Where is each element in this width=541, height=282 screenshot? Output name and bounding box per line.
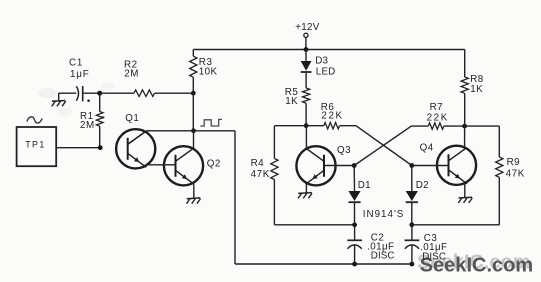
svg-text:DISC: DISC xyxy=(371,251,395,262)
svg-text:DISC: DISC xyxy=(422,251,446,262)
svg-text:10K: 10K xyxy=(199,66,218,77)
svg-text:R7: R7 xyxy=(430,102,444,113)
svg-text:D3: D3 xyxy=(315,56,328,67)
svg-text:R4: R4 xyxy=(251,158,265,169)
svg-text:D1: D1 xyxy=(358,180,371,191)
svg-text:1K: 1K xyxy=(285,96,298,107)
svg-text:1μF: 1μF xyxy=(70,69,89,80)
svg-text:22K: 22K xyxy=(321,111,343,122)
svg-text:Q3: Q3 xyxy=(337,145,351,156)
svg-text:C1: C1 xyxy=(69,58,83,69)
svg-text:1K: 1K xyxy=(470,84,483,95)
svg-text:47K: 47K xyxy=(506,168,525,179)
svg-text:Q2: Q2 xyxy=(207,159,221,170)
svg-text:22K: 22K xyxy=(427,113,449,124)
svg-text:Q1: Q1 xyxy=(125,113,139,124)
svg-text:47K: 47K xyxy=(251,169,270,180)
svg-text:Q4: Q4 xyxy=(420,142,434,153)
svg-text:2M: 2M xyxy=(80,120,95,131)
svg-text:R9: R9 xyxy=(507,157,521,168)
svg-text:IN914'S: IN914'S xyxy=(363,209,405,220)
svg-text:LED: LED xyxy=(316,66,336,77)
svg-text:D2: D2 xyxy=(416,180,429,191)
svg-text:+12V: +12V xyxy=(295,22,320,33)
svg-text:2M: 2M xyxy=(124,68,139,79)
svg-text:TP1: TP1 xyxy=(25,140,46,150)
